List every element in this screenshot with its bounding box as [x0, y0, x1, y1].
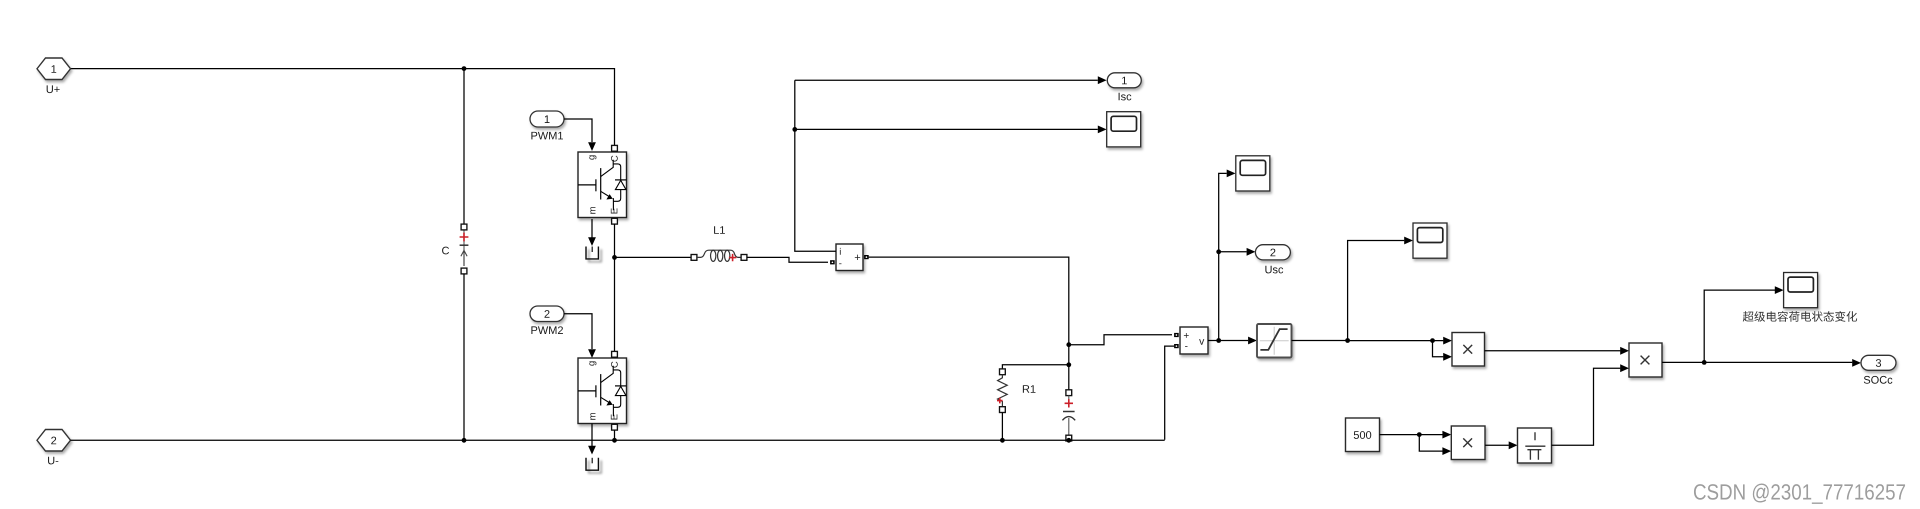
current sensor U3 (i) — [836, 244, 863, 271]
node: saturation output branch — [1345, 338, 1350, 343]
supercapacitor Csc — [1068, 365, 1070, 390]
product block: SOC multiply — [1629, 343, 1662, 377]
node: half-bridge midpoint — [612, 255, 617, 260]
wire to outport Isc — [795, 79, 1098, 81]
node: U+ rail to capacitor C — [462, 66, 467, 71]
wire L1 to current sensor minus — [747, 257, 828, 262]
wire IGBT2 E to U- rail — [614, 430, 616, 440]
scope: Usc waveform — [1236, 156, 1270, 191]
wire 500 output — [1380, 434, 1443, 436]
wire PWM1 to IGBT1 gate — [564, 119, 592, 142]
wire v minus to U- rail — [1165, 346, 1174, 440]
node: SOC output branch — [1702, 360, 1707, 365]
wire U+ rail from In1 to IGBT1 collector — [71, 69, 615, 146]
wire midpoint to inductor L1 — [615, 256, 692, 258]
wire product2 output to SOCc — [1662, 361, 1852, 363]
ground (lower IGBT m) — [586, 458, 598, 470]
watermark — [1694, 484, 1905, 504]
wire branch to product1 bottom input — [1433, 341, 1444, 357]
scope: supercap SOC change — [1784, 273, 1818, 308]
wire node to voltage sensor + — [1069, 335, 1172, 345]
resistor R1 — [1000, 369, 1006, 375]
voltage sensor U4 (v) — [1180, 327, 1208, 354]
wire SOC up to scope — [1704, 290, 1775, 362]
node: Usc branch — [1216, 249, 1221, 254]
capacitor C — [463, 230, 465, 267]
scope: Isc waveform — [1107, 112, 1141, 147]
scope: saturated voltage — [1413, 223, 1447, 258]
wire i measurement output up — [795, 80, 836, 251]
wire v output — [1208, 340, 1219, 342]
inport 1 U+ — [37, 58, 71, 80]
wire to outport Usc — [1219, 251, 1247, 253]
node: v output branch — [1216, 338, 1221, 343]
outport 1 Isc — [1107, 73, 1141, 88]
outport 2 Usc — [1255, 245, 1290, 260]
inport PWM1 — [530, 111, 564, 127]
constant 500 — [1346, 418, 1380, 452]
IGBT U2 (lower) with anti-parallel diode — [578, 358, 627, 424]
wire U- rail — [71, 439, 1165, 441]
ground (upper IGBT m) — [586, 247, 598, 259]
wire branch to product3 bottom input — [1419, 435, 1442, 452]
node: i signal branch — [792, 127, 797, 132]
wire product1 output to product2 top input — [1485, 350, 1621, 352]
wire PWM2 to IGBT2 gate — [564, 314, 592, 349]
wire midpoint down to IGBT2 collector — [614, 257, 616, 351]
wire v output to saturation — [1219, 340, 1248, 342]
node: squaring branch — [1430, 338, 1435, 343]
wire IGBT2 m pin down (crosses rail) — [591, 424, 593, 447]
wire: node down to capacitor C top — [463, 69, 465, 225]
wire saturation output — [1292, 340, 1348, 342]
product block: U squared — [1452, 333, 1485, 367]
wire saturation to product1 top input — [1348, 340, 1444, 342]
math function block 1/u (reciprocal) — [1518, 428, 1552, 463]
wire to scope (Isc) — [795, 128, 1098, 130]
wire IGBT1 m pin down — [591, 219, 593, 238]
label: supercap state-of-charge change (CJK) — [1743, 311, 1857, 322]
inport PWM2 — [530, 306, 564, 322]
wire: capacitor C bottom to U- rail — [463, 274, 465, 441]
node: 500 squared branch — [1417, 432, 1422, 437]
wire reciprocal output to product2 bottom input — [1552, 368, 1621, 445]
wire v output up to scope and Usc — [1219, 173, 1227, 340]
wire node to R1 top — [1002, 365, 1068, 369]
wire R1 bottom to U- rail — [1001, 412, 1003, 440]
wire up to scope (saturated U) — [1348, 241, 1405, 341]
inductor L1 — [691, 255, 697, 261]
outport 3 SOCc — [1861, 355, 1896, 370]
inport 2 U- — [37, 430, 71, 452]
node: R1 branch — [1066, 362, 1071, 367]
wire current sensor + output to load node — [869, 257, 1069, 345]
saturation block — [1257, 324, 1292, 358]
IGBT U1 (upper) with anti-parallel diode — [578, 152, 627, 218]
node: load top — [1066, 342, 1071, 347]
wire node down — [1068, 345, 1070, 365]
node: IGBT2 emitter to rail — [612, 438, 617, 443]
wire product3 to reciprocal — [1485, 444, 1509, 446]
product block: 500 squared — [1451, 426, 1485, 460]
wire IGBT1 E to mid node — [614, 224, 616, 257]
